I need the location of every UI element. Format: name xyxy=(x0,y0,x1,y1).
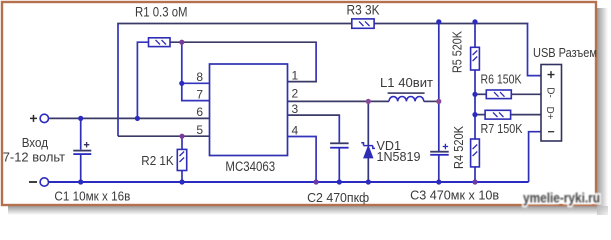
svg-text:R5 520K: R5 520K xyxy=(451,30,465,73)
wire: ground rail xyxy=(48,181,529,183)
wire: Vout top net R3 to USB plus xyxy=(374,23,528,25)
wire: C3 leads xyxy=(438,101,440,151)
node: VD1 ground junction xyxy=(366,179,371,184)
wire: Vin plus rail to pin6 xyxy=(48,117,209,119)
svg-text:7-12 вольт: 7-12 вольт xyxy=(3,150,65,165)
svg-text:4: 4 xyxy=(292,123,299,137)
wire: L1 to Vout node xyxy=(424,100,439,102)
svg-text:D+: D+ xyxy=(544,106,555,119)
svg-text:6: 6 xyxy=(196,105,203,119)
resistor R2 xyxy=(177,149,186,170)
svg-text:5: 5 xyxy=(196,123,203,137)
svg-text:МС34063: МС34063 xyxy=(225,159,275,174)
node: R4 ground junction xyxy=(472,179,477,184)
wire: Vout vertical xyxy=(438,22,440,102)
inductor L1 xyxy=(388,92,425,101)
node: C1 ground junction xyxy=(78,179,83,184)
diode VD1 schottky xyxy=(361,143,375,158)
wire: pin3 to C2 xyxy=(288,114,341,116)
node: C3 ground junction xyxy=(436,179,441,184)
svg-text:C1 10мк x 16в: C1 10мк x 16в xyxy=(54,189,130,204)
resistor R4 xyxy=(471,139,480,167)
svg-text:D-: D- xyxy=(545,87,556,98)
wire: R1 right to pin1 xyxy=(170,41,317,43)
svg-text:ymelie-ryki.ru: ymelie-ryki.ru xyxy=(523,190,600,206)
wire: R6 leads xyxy=(475,93,486,95)
node: R6 tap junction xyxy=(472,92,477,97)
terminal: plus input xyxy=(40,114,48,122)
node: pin8 junction xyxy=(179,81,184,86)
resistor R1 xyxy=(149,38,171,47)
wire: R1 left lead branch xyxy=(137,42,148,118)
svg-text:1N5819: 1N5819 xyxy=(377,150,421,164)
resistor R5 xyxy=(471,47,480,70)
resistor R6 xyxy=(486,90,511,99)
capacitor C1 xyxy=(73,142,91,155)
svg-text:R1 0.3 оМ: R1 0.3 оМ xyxy=(135,5,188,20)
wire: divider chain vertical xyxy=(474,22,476,47)
wire: pin4 to ground xyxy=(288,137,317,183)
svg-text:R3 3K: R3 3K xyxy=(347,3,380,18)
svg-text:3: 3 xyxy=(292,102,299,116)
svg-text:C3 470мк x 10в: C3 470мк x 10в xyxy=(410,188,499,203)
svg-text:R6 150K: R6 150K xyxy=(481,73,522,87)
wire: pin5 feedback horizontal xyxy=(118,135,210,137)
wire: ground to USB minus xyxy=(529,132,541,182)
capacitor C2 xyxy=(330,142,349,148)
svg-text:R4 520K: R4 520K xyxy=(452,125,466,169)
node: R5 top junction xyxy=(472,19,477,24)
svg-text:8: 8 xyxy=(196,70,203,84)
svg-text:R7 150K: R7 150K xyxy=(481,122,524,136)
wire: pin2 to L1 xyxy=(288,100,390,102)
capacitor C3 xyxy=(430,144,449,156)
wire: R1 out to pins 8 and 7 xyxy=(182,42,210,100)
node: R7 tap junction xyxy=(472,112,477,117)
svg-text:2: 2 xyxy=(292,87,299,101)
watermark xyxy=(523,190,600,206)
svg-text:7: 7 xyxy=(196,87,203,101)
svg-text:1: 1 xyxy=(292,68,299,82)
node: R1 output junction xyxy=(179,40,184,45)
wire: feedback top net pin5 to R3 xyxy=(117,24,119,137)
node: Vout top junction xyxy=(436,19,441,24)
wire: R2 leads xyxy=(181,136,183,149)
node: C2 ground junction xyxy=(337,179,342,184)
node: pin4 ground junction xyxy=(314,179,319,184)
node: C1 plus junction xyxy=(78,116,83,121)
wire: VD1 leads xyxy=(367,101,369,145)
svg-text:Вход: Вход xyxy=(22,135,49,150)
USB connector J1 xyxy=(541,65,562,142)
svg-text:USB Разъем: USB Разъем xyxy=(533,46,597,60)
node: VD1 top junction xyxy=(366,99,371,104)
svg-text:L1 40вит: L1 40вит xyxy=(380,75,433,90)
wire: R7 leads xyxy=(475,114,485,116)
node: R1 branch junction xyxy=(135,116,140,121)
svg-text:C2 470пкф: C2 470пкф xyxy=(307,190,369,205)
resistor R7 xyxy=(485,110,511,119)
node: L1 out junction xyxy=(436,99,441,104)
node: R2 top junction xyxy=(179,134,184,139)
wire: C2 bottom lead xyxy=(338,148,340,182)
op-amp U1 MC34063 body xyxy=(210,64,288,156)
node: R2 ground junction xyxy=(179,179,184,184)
resistor R3 xyxy=(352,19,374,28)
wire: pin8 stub xyxy=(182,82,210,84)
terminal: minus input xyxy=(40,178,48,186)
svg-text:R2 1K: R2 1K xyxy=(141,153,174,168)
wire: C1 leads xyxy=(80,118,82,149)
